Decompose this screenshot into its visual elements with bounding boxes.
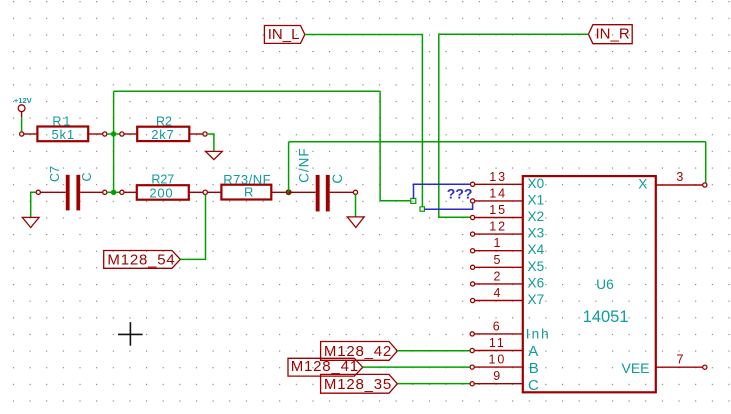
- resistor R73: [221, 172, 271, 200]
- pin circle R1.2: [103, 132, 107, 136]
- local label M128_54: [104, 251, 181, 269]
- svg-text:X6: X6: [528, 275, 545, 290]
- pin 10 B: [470, 353, 539, 377]
- resistor R1: [37, 114, 88, 142]
- resistor R27: [137, 172, 189, 200]
- pin R1.1: [24, 133, 38, 135]
- svg-text:C: C: [80, 172, 94, 181]
- pin circle R27.1: [120, 190, 124, 194]
- svg-text:X7: X7: [528, 292, 545, 307]
- pin circle C7.1: [36, 190, 40, 194]
- pin 14 X1: [471, 186, 545, 207]
- wire: [107, 133, 120, 135]
- svg-text:X1: X1: [528, 192, 545, 207]
- pin circle C2.2: [353, 190, 357, 194]
- svg-text:IN_L: IN_L: [268, 26, 300, 43]
- hierarchical label IN_L: [264, 26, 304, 44]
- pin 3 X output: [638, 170, 707, 191]
- wire: [207, 134, 214, 151]
- svg-text:R27: R27: [151, 172, 174, 186]
- svg-text:C7: C7: [48, 166, 62, 182]
- hierarchical label IN_R: [588, 25, 632, 44]
- svg-text:Inh: Inh: [526, 326, 551, 341]
- pin C2.2: [330, 191, 354, 193]
- svg-text:10: 10: [488, 353, 506, 367]
- pin C7.1: [40, 191, 65, 193]
- svg-text:B: B: [529, 360, 539, 377]
- blue wire to pin 14: [424, 204, 472, 210]
- svg-text:VEE: VEE: [621, 360, 649, 376]
- unconnected square node: [411, 198, 416, 203]
- svg-text:???: ???: [447, 186, 473, 202]
- wire: [107, 191, 120, 193]
- svg-text:13: 13: [489, 170, 507, 184]
- local label M128_41: [288, 358, 363, 376]
- wire M128_41: [363, 366, 470, 368]
- capacitor C2: [296, 147, 345, 211]
- junction: [111, 131, 116, 136]
- wire IN_L: [305, 35, 423, 207]
- svg-text:C/NF: C/NF: [296, 147, 311, 183]
- wire: [380, 200, 411, 202]
- unconnected square node: [420, 207, 424, 211]
- svg-text:1: 1: [494, 236, 503, 250]
- svg-text:12: 12: [489, 220, 507, 234]
- pin 7 VEE: [621, 353, 706, 377]
- svg-text:5: 5: [494, 253, 503, 267]
- svg-text:7: 7: [677, 353, 686, 367]
- junction: [286, 189, 292, 195]
- svg-text:X4: X4: [528, 242, 545, 257]
- svg-text:15: 15: [489, 203, 507, 217]
- pin 2 X6: [471, 269, 545, 290]
- svg-text:+12V: +12V: [14, 96, 32, 105]
- resistor R2: [137, 115, 189, 142]
- pin circle R2.1: [120, 132, 124, 136]
- ground: [22, 217, 39, 227]
- pin R73.1: [207, 191, 221, 193]
- pin 4 X7: [471, 286, 545, 307]
- pin circle R2.2: [203, 132, 207, 136]
- wire C7 to ground: [31, 192, 37, 217]
- wire long horizontal to X: [289, 141, 706, 143]
- wire from junction up: [288, 142, 290, 192]
- capacitor C7: [48, 166, 94, 210]
- junction: [111, 190, 116, 195]
- svg-text:M128_54: M128_54: [107, 251, 175, 268]
- wire top horizontal: [114, 90, 381, 92]
- wire M128_35: [397, 383, 470, 385]
- svg-text:9: 9: [493, 369, 502, 383]
- wire: [379, 91, 381, 201]
- svg-text:X5: X5: [528, 259, 545, 274]
- svg-text:M128_35: M128_35: [324, 376, 392, 393]
- svg-text:2k7: 2k7: [151, 127, 174, 142]
- pin R1.2: [88, 133, 103, 135]
- pin 6 Inh: [470, 319, 551, 341]
- pin R27.2: [189, 191, 203, 193]
- wire: [21, 117, 23, 132]
- svg-text:14: 14: [489, 186, 507, 200]
- svg-text:3: 3: [676, 170, 685, 184]
- pin R2.1: [124, 133, 137, 135]
- pin circle C7.2: [103, 190, 107, 194]
- blue wire to pin 13: [414, 184, 471, 198]
- svg-text:X0: X0: [528, 176, 545, 191]
- pin 12 X3: [471, 220, 545, 241]
- svg-text:2: 2: [494, 269, 503, 283]
- pin C7.2: [80, 191, 103, 193]
- pin R2.2: [189, 133, 203, 135]
- wire M128_54: [180, 195, 205, 260]
- svg-text:C: C: [528, 377, 539, 394]
- pin 5 X5: [471, 253, 545, 274]
- pin circle R73.2/C2.1 over junction: [287, 190, 291, 194]
- svg-text:6: 6: [493, 319, 502, 333]
- wire: [355, 194, 357, 217]
- local label M128_42: [321, 342, 398, 361]
- pin R27.1: [124, 191, 137, 193]
- wire M128_42: [397, 350, 470, 352]
- wire down to pin 3: [705, 142, 707, 184]
- svg-text:200: 200: [149, 186, 173, 201]
- pin 1 X4: [471, 236, 545, 257]
- svg-text:11: 11: [489, 336, 506, 350]
- svg-text:X: X: [638, 176, 647, 191]
- pin 9 C: [470, 369, 539, 394]
- pin C2.1: [289, 191, 316, 193]
- svg-text:4: 4: [494, 286, 503, 300]
- pin R73.2: [271, 191, 288, 193]
- ground: [347, 217, 364, 228]
- local label M128_35: [321, 374, 398, 393]
- svg-text:M128_41: M128_41: [291, 358, 359, 375]
- pin circle shared R27.2/R73.1: [203, 190, 207, 194]
- IC U6 body: [523, 176, 656, 392]
- svg-text:X3: X3: [528, 226, 545, 241]
- ground: [206, 151, 223, 159]
- svg-text:5k1: 5k1: [52, 127, 75, 142]
- pin 13 X0: [471, 170, 545, 191]
- power flag +12V: [14, 96, 32, 117]
- svg-text:U6: U6: [596, 277, 614, 292]
- svg-text:14051: 14051: [583, 308, 629, 326]
- svg-text:C: C: [330, 174, 345, 184]
- svg-text:IN_R: IN_R: [596, 26, 630, 43]
- svg-text:A: A: [528, 343, 538, 360]
- pin 15 X2: [471, 203, 545, 224]
- pin circle R1.1: [20, 132, 24, 136]
- pin 11 A: [470, 336, 538, 360]
- wire vertical through junctions: [113, 91, 115, 192]
- crosshair marker: [118, 322, 143, 346]
- svg-text:X2: X2: [528, 209, 545, 224]
- wire IN_R: [439, 34, 589, 217]
- svg-text:R: R: [244, 185, 253, 200]
